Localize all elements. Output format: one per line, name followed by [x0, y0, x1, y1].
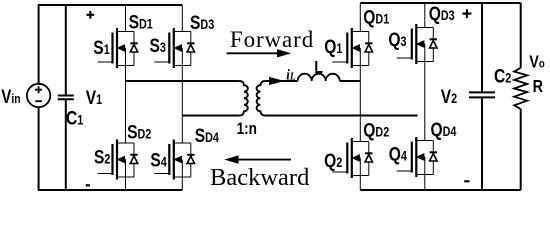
transformer primary winding [240, 81, 248, 116]
capacitor C2 [469, 3, 495, 190]
forward arrow [227, 52, 280, 54]
wire primary bottom [182, 115, 240, 117]
wire top rail left bridge [38, 4, 183, 6]
plus polarity V1 [87, 11, 95, 19]
resistor R [514, 3, 527, 190]
capacitor C1 [58, 5, 74, 190]
wire primary top [126, 80, 240, 82]
backward arrow [237, 159, 292, 161]
transistor S3 [154, 5, 194, 116]
wire top rail right bridge [360, 2, 520, 4]
transistor S1 [98, 5, 138, 81]
svg-text:Forward: Forward [230, 27, 314, 52]
svg-text:1:n: 1:n [237, 119, 257, 138]
wire bottom rail right bridge [360, 189, 520, 191]
transistor S4 [154, 116, 194, 191]
transistor Q3 [397, 3, 437, 116]
svg-text:L: L [314, 58, 323, 78]
transistor Q4 [397, 116, 437, 191]
wire inductor to Q bridge [340, 80, 361, 82]
wire secondary top [265, 80, 298, 82]
transistor S2 [98, 81, 138, 190]
transistor Q2 [332, 81, 372, 190]
svg-text:Backward: Backward [210, 164, 309, 191]
current arrow iL [266, 80, 271, 82]
svg-text:R: R [533, 77, 544, 97]
minus polarity V1 [86, 184, 90, 186]
plus polarity V2 [462, 9, 471, 18]
transistor Q1 [332, 3, 372, 81]
source Vin [27, 5, 50, 190]
minus polarity V2 [464, 180, 469, 182]
transformer secondary winding [257, 81, 265, 116]
wire secondary bottom [265, 115, 418, 117]
inductor L [298, 74, 340, 81]
wire bottom rail left bridge [38, 189, 183, 191]
